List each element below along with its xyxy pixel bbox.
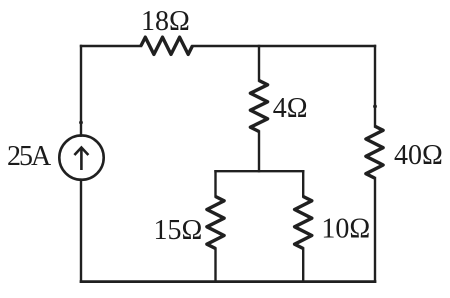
svg-text:40Ω: 40Ω xyxy=(394,140,443,171)
svg-text:15Ω: 15Ω xyxy=(154,215,203,246)
svg-text:4Ω: 4Ω xyxy=(273,93,308,124)
svg-text:25A: 25A xyxy=(7,141,52,172)
svg-text:10Ω: 10Ω xyxy=(321,214,370,245)
svg-text:18Ω: 18Ω xyxy=(141,6,190,37)
